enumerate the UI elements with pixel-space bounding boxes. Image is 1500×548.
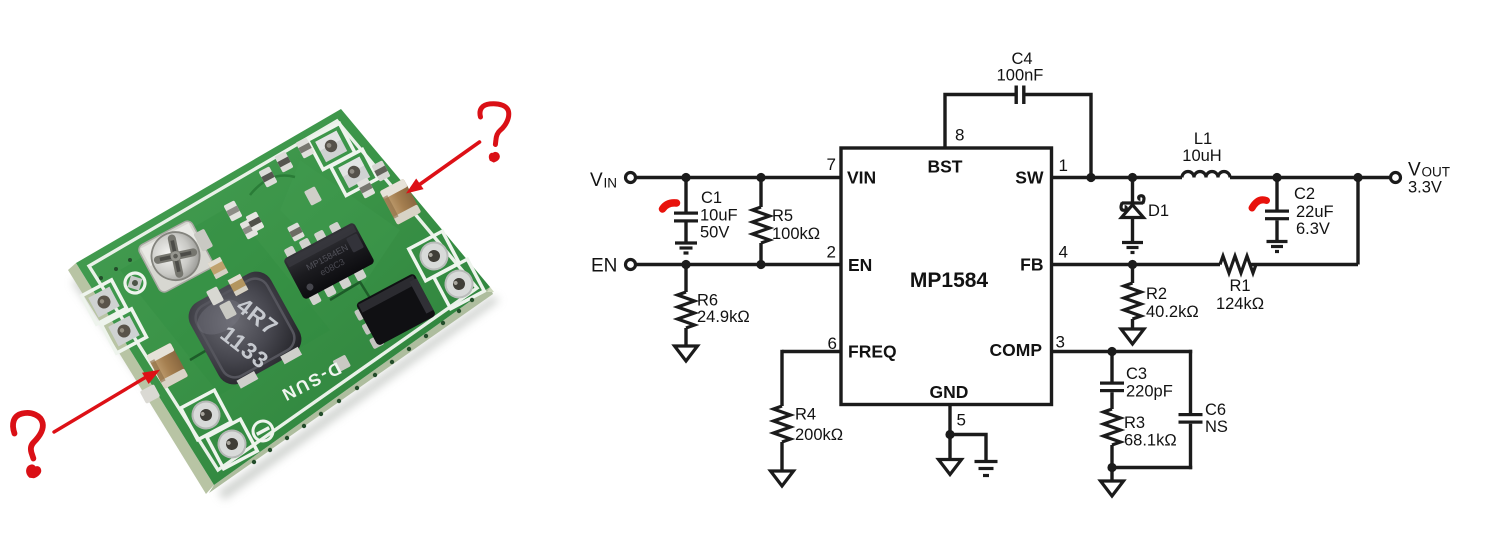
polarity mark — [249, 417, 276, 444]
svg-text:IN: IN — [604, 176, 618, 191]
tan capacitor bottom-left — [147, 343, 189, 389]
capacitor C1 — [684, 178, 687, 212]
junction FB/SW — [1353, 173, 1362, 182]
small part near BL cap — [140, 384, 161, 404]
resistor R4 — [774, 406, 791, 442]
IC U1 MP1584 box — [841, 148, 1052, 405]
potentiometer — [137, 215, 222, 294]
junction D1/SW — [1128, 173, 1137, 182]
svg-text:200kΩ: 200kΩ — [795, 426, 843, 444]
svg-text:NS: NS — [1205, 418, 1228, 436]
svg-text:220pF: 220pF — [1126, 383, 1173, 401]
IC SOIC-8 — [279, 215, 379, 308]
wire FB — [1052, 263, 1221, 266]
wire COMP — [1052, 350, 1193, 353]
wire BST loop — [945, 95, 1015, 149]
svg-text:24.9kΩ: 24.9kΩ — [697, 308, 750, 326]
diode D1 zener — [1131, 178, 1134, 204]
wire GND pin5 — [948, 405, 951, 460]
capacitor C3 — [1110, 352, 1113, 382]
svg-text:SW: SW — [1015, 168, 1044, 188]
fiducial hole — [121, 269, 148, 296]
svg-text:C2: C2 — [1294, 185, 1315, 203]
ground D1 — [1122, 241, 1143, 244]
pad group bottom-left (through holes) — [181, 390, 231, 440]
svg-text:R2: R2 — [1146, 285, 1167, 303]
svg-text:4: 4 — [1059, 243, 1068, 262]
svg-text:3.3V: 3.3V — [1408, 179, 1442, 197]
resistor R1 — [1220, 256, 1256, 273]
junction C2/SW — [1272, 173, 1281, 182]
ground R4 arrow — [771, 471, 794, 486]
pcb darker trace regions — [120, 206, 330, 395]
svg-text:MP1584: MP1584 — [910, 269, 989, 292]
pcb side faces — [68, 263, 214, 494]
junction C3/COMP — [1107, 347, 1116, 356]
inductor L1 — [1182, 172, 1230, 178]
junction C1/VIN — [681, 173, 690, 182]
junction BST/SW — [1086, 173, 1095, 182]
svg-text:R5: R5 — [772, 207, 793, 225]
svg-text:V: V — [1408, 160, 1421, 181]
capacitor C2 — [1275, 178, 1278, 210]
svg-text:FREQ: FREQ — [848, 342, 897, 362]
mouse-bite dots along bottom edge — [99, 249, 474, 464]
node EN terminal — [626, 260, 636, 270]
ground R6 arrow — [675, 346, 698, 361]
svg-text:5: 5 — [957, 411, 966, 430]
ground C2 — [1267, 240, 1288, 243]
svg-text:100kΩ: 100kΩ — [772, 225, 820, 243]
svg-text:COMP: COMP — [990, 340, 1043, 360]
diode / SOT component — [351, 273, 437, 350]
svg-text:C1: C1 — [701, 189, 722, 207]
wire EN line — [636, 263, 842, 266]
junction COMP gnd — [1107, 463, 1116, 472]
svg-text:C6: C6 — [1205, 401, 1226, 419]
svg-text:2: 2 — [827, 243, 836, 262]
svg-text:VIN: VIN — [847, 168, 876, 188]
node VOUT terminal — [1391, 173, 1401, 183]
ground C1 — [675, 241, 697, 244]
svg-text:EN: EN — [591, 256, 617, 277]
svg-text:D1: D1 — [1148, 202, 1169, 220]
svg-text:3: 3 — [1056, 333, 1065, 352]
red question mark bottom-left — [13, 413, 43, 459]
red mark near C1 — [663, 203, 677, 209]
small smd parts — [206, 137, 391, 372]
capacitor C6 — [1189, 350, 1192, 413]
svg-text:V: V — [590, 170, 603, 191]
svg-text:R3: R3 — [1124, 414, 1145, 432]
svg-text:10uF: 10uF — [700, 207, 738, 225]
svg-text:OUT: OUT — [1422, 165, 1451, 180]
svg-text:68.1kΩ: 68.1kΩ — [1124, 432, 1177, 450]
svg-text:8: 8 — [955, 126, 964, 145]
ground pin5 arrow — [939, 460, 962, 475]
red question mark top-right — [480, 104, 509, 145]
resistor R3 — [1104, 409, 1121, 445]
svg-text:R1: R1 — [1229, 277, 1250, 295]
svg-text:R4: R4 — [795, 406, 816, 424]
junction R5/EN — [756, 260, 765, 269]
svg-text:1: 1 — [1059, 156, 1068, 175]
resistor R6 — [684, 265, 687, 293]
board shadow — [72, 276, 500, 500]
svg-text:6.3V: 6.3V — [1296, 220, 1330, 238]
resistor R5 — [759, 178, 762, 208]
svg-text:R6: R6 — [697, 292, 718, 310]
svg-text:BST: BST — [928, 157, 963, 177]
wire SW rail — [1052, 176, 1183, 179]
svg-text:124kΩ: 124kΩ — [1216, 295, 1264, 313]
trace lines dark — [190, 331, 284, 367]
ground pin5 earth — [975, 460, 998, 463]
svg-text:40.2kΩ: 40.2kΩ — [1146, 303, 1199, 321]
wire FREQ — [782, 350, 841, 353]
silkscreen border — [89, 121, 477, 470]
red arrow bottom-left — [54, 370, 160, 432]
junction R6/EN — [681, 260, 690, 269]
pad group right (through holes) — [409, 231, 459, 281]
svg-text:EN: EN — [848, 255, 872, 275]
red arrow top-right — [406, 142, 480, 194]
svg-text:100nF: 100nF — [997, 67, 1044, 85]
svg-text:C3: C3 — [1126, 365, 1147, 383]
svg-text:10uH: 10uH — [1182, 147, 1221, 165]
pad group top-right — [308, 123, 355, 169]
ground R2 arrow — [1121, 329, 1144, 344]
ground COMP arrow — [1101, 481, 1124, 496]
wire VIN rail — [636, 176, 842, 179]
svg-text:22uF: 22uF — [1296, 203, 1334, 221]
svg-text:C4: C4 — [1011, 50, 1032, 68]
inductor 4R7 — [182, 265, 309, 394]
svg-text:7: 7 — [827, 155, 836, 174]
pad group left — [81, 280, 126, 324]
node VIN terminal — [626, 173, 636, 183]
junction R5/VIN — [756, 173, 765, 182]
pcb top surface — [76, 109, 490, 485]
svg-text:50V: 50V — [700, 224, 729, 242]
junction R2/FB — [1128, 260, 1137, 269]
red mark near C2 — [1252, 200, 1267, 208]
svg-text:FB: FB — [1020, 255, 1043, 275]
svg-text:L1: L1 — [1194, 130, 1212, 148]
tan capacitor top-right — [380, 179, 422, 225]
resistor R2 — [1131, 265, 1134, 284]
capacitor C4 — [1015, 86, 1018, 105]
wire COMP bottom — [1112, 466, 1192, 469]
svg-text:GND: GND — [930, 382, 969, 402]
